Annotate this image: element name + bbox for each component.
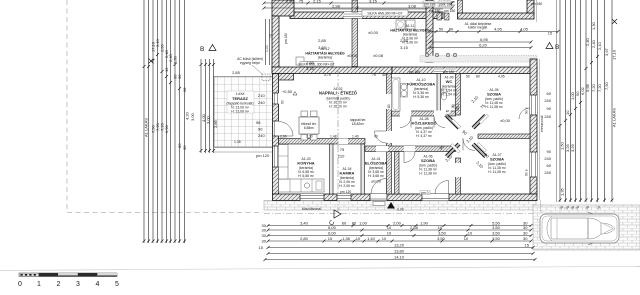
svg-text:60: 60 bbox=[547, 163, 552, 168]
svg-text:30: 30 bbox=[523, 231, 528, 236]
svg-text:75: 75 bbox=[372, 73, 376, 77]
svg-text:80: 80 bbox=[476, 75, 480, 79]
svg-text:98: 98 bbox=[256, 120, 261, 125]
svg-text:4,95: 4,95 bbox=[494, 27, 503, 32]
svg-text:240: 240 bbox=[258, 100, 265, 105]
svg-text:90: 90 bbox=[547, 149, 552, 154]
svg-text:pm 180: pm 180 bbox=[284, 33, 288, 44]
svg-text:6,90: 6,90 bbox=[164, 124, 169, 133]
svg-text:pm 180: pm 180 bbox=[429, 9, 440, 13]
svg-text:SILKA HML 300 NF+GT: SILKA HML 300 NF+GT bbox=[298, 63, 334, 67]
svg-text:90: 90 bbox=[258, 127, 263, 132]
svg-text:30: 30 bbox=[262, 228, 267, 233]
svg-text:4: 4 bbox=[96, 281, 100, 288]
svg-text:10: 10 bbox=[464, 236, 469, 241]
section C marker bbox=[334, 210, 341, 218]
svg-text:2,86: 2,86 bbox=[213, 119, 218, 128]
svg-text:75: 75 bbox=[340, 147, 345, 152]
svg-text:A1-11: A1-11 bbox=[406, 24, 415, 28]
svg-text:50: 50 bbox=[466, 75, 470, 79]
left bundle ticks bbox=[143, 53, 187, 243]
walls: utility bottom / living top bbox=[272, 67, 392, 74]
svg-text:SZOBA: SZOBA bbox=[490, 157, 504, 162]
room label: kozlekedo bbox=[411, 117, 436, 138]
svg-text:80: 80 bbox=[449, 27, 454, 32]
svg-text:(kerámia): (kerámia) bbox=[318, 56, 332, 60]
svg-text:FÜRDŐSZOBA: FÜRDŐSZOBA bbox=[407, 82, 435, 87]
svg-text:2,58: 2,58 bbox=[410, 225, 419, 230]
furniture: dining table bbox=[299, 117, 319, 134]
svg-text:H: 2,06 m²: H: 2,06 m² bbox=[339, 184, 356, 188]
svg-text:15: 15 bbox=[164, 67, 169, 72]
svg-text:H: 6,58 m²: H: 6,58 m² bbox=[298, 174, 315, 178]
svg-text:külön megáll.: külön megáll. bbox=[468, 26, 488, 30]
svg-text:50: 50 bbox=[439, 27, 444, 32]
svg-text:3,15: 3,15 bbox=[400, 45, 409, 50]
window: bottom wall kamra small bbox=[337, 194, 351, 201]
door gaps in partitions bbox=[339, 94, 462, 177]
svg-text:30: 30 bbox=[262, 239, 267, 244]
svg-text:3,50: 3,50 bbox=[492, 236, 501, 241]
svg-text:-0,02: -0,02 bbox=[396, 208, 404, 212]
vertical line right of building bbox=[556, 0, 558, 202]
svg-text:7,50: 7,50 bbox=[604, 81, 609, 90]
svg-text:210: 210 bbox=[258, 93, 265, 98]
svg-text:2,15: 2,15 bbox=[313, 0, 322, 4]
paved strip center (below building) bbox=[264, 201, 536, 211]
svg-text:80: 80 bbox=[387, 104, 391, 108]
room label: szoba bottom right bbox=[488, 153, 507, 174]
svg-text:15: 15 bbox=[525, 243, 530, 248]
walls: main left wall bbox=[273, 74, 279, 195]
svg-text:3,50: 3,50 bbox=[492, 231, 501, 236]
svg-text:1,90: 1,90 bbox=[420, 221, 429, 226]
svg-text:ELŐSZOBA: ELŐSZOBA bbox=[365, 161, 387, 166]
room label: kamra bbox=[339, 167, 356, 188]
bottom chain right 30 stack bbox=[523, 221, 530, 248]
small piers utility right bbox=[437, 13, 442, 20]
svg-text:210: 210 bbox=[338, 154, 345, 159]
entrance level marker triangle bbox=[373, 202, 385, 206]
svg-text:2,80: 2,80 bbox=[300, 236, 309, 241]
door arc: bath door bbox=[400, 117, 411, 128]
svg-text:1,00: 1,00 bbox=[265, 45, 269, 52]
svg-text:2,50: 2,50 bbox=[286, 0, 295, 4]
bottom chain numbers bbox=[300, 221, 501, 260]
rotated 30 labels under right bundle bbox=[559, 205, 602, 211]
room label: szoba bottom middle bbox=[419, 155, 438, 176]
svg-text:15: 15 bbox=[328, 236, 333, 241]
walls: top-left corner chunk bbox=[272, 0, 294, 16]
walls: top-right block left bbox=[458, 0, 463, 13]
svg-text:B: B bbox=[200, 46, 204, 53]
outer face line right of building bbox=[539, 59, 541, 200]
svg-text:H: 11,38 m²: H: 11,38 m² bbox=[419, 172, 437, 176]
walls: utility left wall bbox=[272, 16, 279, 69]
svg-text:30: 30 bbox=[523, 225, 528, 230]
window size stack terrace bbox=[256, 93, 270, 158]
svg-text:H: 13,06 m²: H: 13,06 m² bbox=[231, 110, 250, 114]
bottom dimension chains bbox=[265, 226, 535, 260]
windows in bedroom-wing top wall bbox=[434, 68, 456, 74]
svg-text:3,15: 3,15 bbox=[369, 0, 378, 4]
eaves band over bedroom wing bbox=[420, 56, 537, 63]
svg-text:ereszvonal: ereszvonal bbox=[540, 115, 544, 132]
svg-text:pm 120: pm 120 bbox=[340, 190, 351, 194]
svg-text:90: 90 bbox=[281, 100, 285, 104]
window: left wall kitchen window bbox=[273, 146, 279, 167]
interior partition: bath-wc bottom bbox=[392, 111, 456, 116]
svg-text:2,10: 2,10 bbox=[597, 41, 602, 50]
furniture: bathroom fixtures bbox=[392, 78, 401, 111]
interior partition: right szoba divider bbox=[478, 134, 530, 139]
svg-text:3,50: 3,50 bbox=[492, 225, 501, 230]
svg-text:küszöbvonal: küszöbvonal bbox=[302, 207, 321, 211]
svg-text:3,08: 3,08 bbox=[408, 4, 417, 9]
svg-text:240: 240 bbox=[258, 133, 265, 138]
room label: haztartasi right bbox=[390, 24, 430, 45]
svg-text:H: 11,38 m²: H: 11,38 m² bbox=[488, 170, 506, 174]
svg-text:H: 5,36 m²: H: 5,36 m² bbox=[413, 95, 430, 99]
interior partition: hall bottom bbox=[365, 146, 456, 152]
svg-text:3,15: 3,15 bbox=[306, 66, 315, 71]
svg-text:10: 10 bbox=[565, 110, 570, 115]
outer face line through driveway bbox=[540, 200, 542, 212]
svg-text:0,98: 0,98 bbox=[585, 83, 590, 92]
window: bottom wall szoba-mid bbox=[420, 181, 449, 201]
window: bottom wall kitchen bbox=[300, 194, 324, 201]
svg-text:2,40: 2,40 bbox=[585, 37, 590, 46]
svg-text:4,05: 4,05 bbox=[520, 27, 529, 32]
interior dim texts bbox=[306, 38, 409, 159]
svg-text:1,40: 1,40 bbox=[367, 236, 376, 241]
svg-text:1,30: 1,30 bbox=[591, 21, 596, 30]
svg-text:±0,00: ±0,00 bbox=[371, 179, 382, 184]
svg-text:KAMRA: KAMRA bbox=[340, 171, 355, 176]
rotated door leaves bbox=[451, 119, 461, 129]
svg-text:3,00: 3,00 bbox=[190, 112, 195, 121]
door arc: entrance bbox=[371, 179, 387, 195]
svg-text:WC: WC bbox=[446, 79, 453, 84]
svg-text:90: 90 bbox=[547, 106, 552, 111]
svg-text:240: 240 bbox=[544, 98, 551, 103]
walls: utility right wall bbox=[426, 0, 433, 62]
scale bar bbox=[19, 273, 117, 277]
svg-text:15: 15 bbox=[548, 31, 553, 36]
svg-text:7,20: 7,20 bbox=[591, 83, 596, 92]
svg-text:2,90: 2,90 bbox=[280, 135, 287, 139]
svg-text:2,85: 2,85 bbox=[400, 38, 409, 43]
svg-text:1,00: 1,00 bbox=[359, 221, 368, 226]
door: living to hall in partition bbox=[375, 131, 393, 143]
svg-text:0: 0 bbox=[18, 281, 22, 288]
svg-text:80: 80 bbox=[352, 221, 357, 226]
left bundle cross mark bbox=[149, 59, 154, 64]
svg-text:1,35: 1,35 bbox=[560, 187, 565, 196]
svg-text:A1 LAKÁS: A1 LAKÁS bbox=[144, 118, 149, 137]
SILKA text box on wall bbox=[300, 62, 333, 67]
right dimension chain bundle bbox=[560, 0, 612, 202]
furniture: kitchen counter bbox=[279, 179, 325, 192]
interior partition: kitchen row top bbox=[279, 139, 366, 145]
svg-text:18,82m²: 18,82m² bbox=[352, 122, 365, 126]
svg-text:±0,00: ±0,00 bbox=[347, 53, 358, 58]
svg-text:±0,00: ±0,00 bbox=[500, 118, 511, 123]
room label: wc bbox=[441, 76, 458, 97]
utility washer fixtures bbox=[396, 20, 405, 29]
paved strip right (driveway with car) bbox=[533, 205, 640, 250]
svg-text:1,35: 1,35 bbox=[234, 140, 241, 144]
svg-text:4,20: 4,20 bbox=[185, 111, 190, 120]
svg-text:10: 10 bbox=[438, 225, 443, 230]
walls: main bottom wall bbox=[273, 194, 538, 201]
walls: top-right block top band bbox=[458, 13, 535, 19]
svg-text:1: 1 bbox=[37, 281, 41, 288]
svg-text:SZOBA: SZOBA bbox=[487, 92, 501, 97]
door arc: szoba right near wall bbox=[519, 108, 530, 119]
svg-text:H: 3,68 m²: H: 3,68 m² bbox=[368, 174, 385, 178]
room label: szoba top right bbox=[485, 88, 504, 109]
svg-text:15: 15 bbox=[269, 34, 273, 38]
svg-text:egység helye: egység helye bbox=[240, 61, 260, 65]
svg-text:5: 5 bbox=[115, 281, 119, 288]
walls: top-right block right bbox=[527, 0, 534, 13]
X cluster of diagonal doors at hall center bbox=[438, 94, 490, 170]
svg-text:10: 10 bbox=[356, 236, 361, 241]
svg-text:SILKA HML300 NF+GT: SILKA HML300 NF+GT bbox=[367, 12, 402, 16]
svg-text:2,98: 2,98 bbox=[332, 4, 341, 9]
top dimension rows bbox=[264, 3, 558, 48]
svg-text:KÖZLEKEDŐ: KÖZLEKEDŐ bbox=[411, 121, 436, 126]
car top view bbox=[540, 212, 619, 244]
room label: nappali-etkezo bbox=[319, 87, 358, 109]
svg-text:240: 240 bbox=[544, 156, 551, 161]
window: left wall living window bbox=[273, 93, 279, 104]
svg-text:2,40: 2,40 bbox=[591, 39, 596, 48]
svg-text:240: 240 bbox=[544, 170, 551, 175]
interior partition: konyha/kamra bbox=[330, 144, 334, 194]
walls: main right wall bbox=[530, 59, 537, 194]
svg-text:3,29: 3,29 bbox=[570, 143, 575, 152]
interior partition: hall / bedrooms column lower bbox=[456, 158, 461, 194]
room label: haztartasi left bbox=[305, 47, 345, 60]
svg-text:pm 180: pm 180 bbox=[443, 70, 454, 74]
bottom chain ticks bbox=[264, 224, 537, 261]
svg-text:2,00: 2,00 bbox=[393, 221, 402, 226]
svg-text:SZOBA: SZOBA bbox=[421, 158, 435, 163]
svg-text:6,20: 6,20 bbox=[479, 43, 488, 48]
svg-text:15: 15 bbox=[259, 245, 264, 250]
svg-text:13,80: 13,80 bbox=[394, 249, 405, 254]
svg-text:1,40: 1,40 bbox=[352, 135, 359, 139]
room label: eloszoba bbox=[365, 157, 387, 184]
svg-text:10: 10 bbox=[387, 225, 392, 230]
wall corner chunk living top-left bbox=[279, 74, 294, 81]
interior partition: bath/wc divider bbox=[437, 74, 441, 113]
svg-text:17,10: 17,10 bbox=[612, 49, 617, 60]
svg-text:pm 0: pm 0 bbox=[421, 191, 429, 195]
svg-text:H: 11,38 m²: H: 11,38 m² bbox=[485, 105, 503, 109]
svg-text:30: 30 bbox=[523, 236, 528, 241]
svg-text:2,85: 2,85 bbox=[318, 38, 327, 43]
svg-text:2,30: 2,30 bbox=[306, 135, 313, 139]
svg-text:1,30: 1,30 bbox=[173, 55, 178, 64]
svg-text:B: B bbox=[555, 44, 559, 51]
svg-text:7,20: 7,20 bbox=[597, 83, 602, 92]
svg-text:10: 10 bbox=[382, 236, 387, 241]
svg-text:2: 2 bbox=[57, 281, 61, 288]
svg-text:75: 75 bbox=[299, 0, 304, 4]
faint ground line full width bbox=[0, 266, 640, 270]
interior partition: kamra/eloszoba bbox=[361, 144, 365, 194]
svg-text:60: 60 bbox=[342, 221, 347, 226]
interior partition: living / bath column bbox=[387, 74, 392, 195]
walls: bedroom wing top wall bbox=[392, 67, 537, 74]
door arc: wc door bbox=[434, 117, 445, 128]
svg-text:pm 180: pm 180 bbox=[531, 2, 542, 6]
diagonal wall stubs bbox=[446, 115, 486, 157]
svg-text:KONYHA: KONYHA bbox=[297, 161, 314, 166]
svg-text:4,05: 4,05 bbox=[498, 75, 505, 79]
svg-text:TERASZ: TERASZ bbox=[232, 96, 249, 101]
svg-text:90 e: 90 e bbox=[525, 169, 529, 176]
left dimension chain bundle bbox=[144, 0, 185, 243]
bottom chain left 30 stack bbox=[259, 223, 267, 250]
svg-text:3,50: 3,50 bbox=[438, 231, 447, 236]
svg-text:60: 60 bbox=[547, 91, 552, 96]
section marker B right bbox=[546, 43, 553, 49]
window: right wall szoba-bottom bbox=[530, 152, 537, 177]
svg-text:pm 120: pm 120 bbox=[256, 153, 270, 158]
svg-text:1,38: 1,38 bbox=[342, 236, 351, 241]
window size stacks right wall bbox=[544, 91, 551, 175]
svg-text:3,50: 3,50 bbox=[437, 236, 446, 241]
room label: furdoszoba bbox=[407, 78, 435, 99]
svg-text:3,97: 3,97 bbox=[604, 47, 609, 56]
room label: konyha bbox=[297, 157, 314, 178]
left bundle rotated labels bbox=[144, 38, 188, 150]
right bundle cross mark bbox=[612, 19, 617, 24]
svg-text:2,85: 2,85 bbox=[306, 60, 315, 65]
svg-text:3: 3 bbox=[76, 281, 80, 288]
svg-text:1,48: 1,48 bbox=[330, 135, 337, 139]
svg-text:pm 180: pm 180 bbox=[409, 70, 420, 74]
door arc: szoba-mid from hall bbox=[404, 152, 415, 163]
svg-text:±0,00: ±0,00 bbox=[368, 30, 379, 35]
svg-text:30: 30 bbox=[177, 74, 182, 79]
door: entrance at bottom wall bbox=[370, 194, 387, 201]
walls: utility mid partition bbox=[352, 19, 358, 67]
rotated opening dims bbox=[438, 94, 490, 170]
property boundary dashed horizontal bbox=[67, 212, 263, 214]
svg-text:98: 98 bbox=[182, 87, 187, 92]
svg-text:30: 30 bbox=[382, 73, 386, 77]
window: right wall szoba-top bbox=[530, 95, 537, 115]
svg-text:H: 26,20 m²: H: 26,20 m² bbox=[329, 105, 348, 109]
door: terrace door in left wall bbox=[273, 121, 279, 136]
svg-text:pm 180: pm 180 bbox=[444, 9, 455, 13]
rotated opening size labels at partitions bbox=[281, 100, 529, 176]
svg-text:30: 30 bbox=[262, 233, 267, 238]
svg-text:6,95: 6,95 bbox=[480, 37, 489, 42]
svg-text:±0,08: ±0,08 bbox=[373, 53, 384, 58]
svg-text:10: 10 bbox=[468, 231, 473, 236]
interior partition: hall / bedrooms column upper bbox=[456, 74, 461, 116]
svg-text:NAPPALI - ÉTKEZŐ: NAPPALI - ÉTKEZŐ bbox=[319, 91, 358, 96]
svg-text:3,00: 3,00 bbox=[206, 115, 211, 124]
svg-text:30: 30 bbox=[182, 145, 187, 150]
interior partition: eloszoba/szoba-mid bbox=[395, 152, 400, 195]
right bundle rotated labels bbox=[560, 21, 617, 196]
svg-text:240: 240 bbox=[544, 114, 551, 119]
svg-text:6,58m²: 6,58m² bbox=[304, 126, 315, 130]
terrace left mini chains bbox=[201, 59, 214, 153]
svg-text:4,75: 4,75 bbox=[324, 73, 331, 77]
svg-text:+0,50: +0,50 bbox=[282, 89, 293, 94]
svg-text:A1 LAKÁS: A1 LAKÁS bbox=[612, 108, 617, 127]
svg-text:3,15: 3,15 bbox=[318, 45, 327, 50]
svg-text:13,20: 13,20 bbox=[394, 243, 405, 248]
door gap + arc: szoba bottom-right door bbox=[463, 134, 475, 139]
walls: utility block top band bbox=[290, 12, 443, 19]
svg-text:10: 10 bbox=[387, 231, 392, 236]
svg-text:14,10: 14,10 bbox=[394, 255, 405, 260]
walls: clipped partition above utility bbox=[352, 0, 358, 12]
svg-text:H: 4,37 m²: H: 4,37 m² bbox=[416, 134, 433, 138]
right bundle ticks bbox=[559, 55, 614, 202]
svg-text:90: 90 bbox=[374, 135, 378, 139]
terrace bbox=[214, 77, 273, 148]
property boundary dashed vertical bbox=[66, 0, 68, 209]
svg-text:1,50: 1,50 bbox=[560, 141, 565, 150]
svg-text:2,85: 2,85 bbox=[232, 70, 241, 75]
svg-text:3,40: 3,40 bbox=[300, 221, 309, 226]
svg-text:6,00: 6,00 bbox=[328, 231, 337, 236]
